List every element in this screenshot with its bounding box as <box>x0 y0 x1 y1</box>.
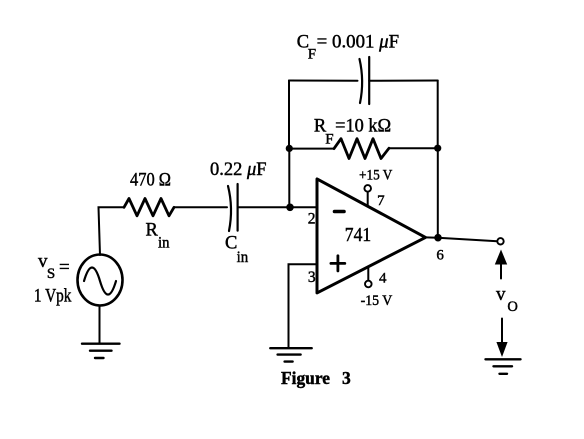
wire Cin to inverting input node <box>238 206 317 208</box>
feedback left vertical wire <box>288 81 290 149</box>
resistor Rin <box>124 199 174 216</box>
svg-text:3: 3 <box>342 368 351 388</box>
label vS = <box>38 251 70 282</box>
ground at output <box>486 359 521 374</box>
svg-text:F: F <box>308 46 316 62</box>
svg-text:2: 2 <box>308 210 316 227</box>
node at output <box>434 234 442 242</box>
svg-text:=: = <box>59 257 70 278</box>
wire node up to feedback <box>288 148 290 207</box>
sine wave inside source <box>84 268 116 295</box>
wire source bottom to ground <box>99 306 101 344</box>
svg-text:= 0.001 μF: = 0.001 μF <box>317 32 399 52</box>
plus symbol <box>331 256 345 271</box>
op-amp U1 741 triangle <box>317 179 426 293</box>
svg-text:=10 kΩ: =10 kΩ <box>335 117 391 137</box>
pin 7 wire <box>367 192 369 207</box>
feedback right vertical wire upper <box>437 81 439 149</box>
voltage source VS <box>78 255 123 306</box>
node RF left <box>286 145 293 152</box>
node at inverting input <box>286 204 294 212</box>
svg-text:+15 V: +15 V <box>359 167 392 183</box>
wire source top to input line <box>99 207 125 255</box>
caption Figure 3 <box>281 368 351 388</box>
node RF right <box>434 145 441 152</box>
svg-text:741: 741 <box>345 224 371 246</box>
svg-text:1 Vpk: 1 Vpk <box>34 286 72 307</box>
svg-text:Figure: Figure <box>281 368 330 388</box>
vO up arrow <box>495 250 507 265</box>
pin 7 terminal <box>364 185 371 192</box>
capacitor Cin <box>228 184 238 231</box>
svg-text:6: 6 <box>436 247 444 263</box>
feedback right vertical wire lower <box>437 148 439 238</box>
resistor RF <box>334 139 389 159</box>
svg-text:-15 V: -15 V <box>361 293 393 309</box>
svg-text:470 Ω: 470 Ω <box>130 171 171 191</box>
svg-text:4: 4 <box>379 271 387 287</box>
label Rin <box>146 220 170 251</box>
svg-text:O: O <box>507 299 517 315</box>
label CF = 0.001 uF <box>297 32 399 62</box>
svg-text:R: R <box>146 220 159 240</box>
svg-text:3: 3 <box>308 269 316 286</box>
label vO <box>496 284 518 315</box>
output wire pin 6 <box>426 237 498 241</box>
ground below pin 3 <box>270 348 311 361</box>
vO down arrow <box>501 319 503 344</box>
svg-text:7: 7 <box>377 193 385 209</box>
wire RF left <box>289 148 334 150</box>
capacitor CF <box>360 57 370 104</box>
minus symbol <box>335 210 345 214</box>
output terminal <box>497 238 503 244</box>
wire RF right <box>389 147 438 149</box>
pin 4 wire <box>367 267 369 281</box>
feedback top wire right segment <box>369 80 438 82</box>
label Cin <box>225 234 248 266</box>
pin 4 terminal <box>365 281 372 288</box>
svg-text:in: in <box>158 235 170 252</box>
svg-text:S: S <box>47 266 55 282</box>
pin 3 wire <box>289 264 318 347</box>
svg-text:C: C <box>225 234 237 254</box>
svg-text:v: v <box>496 284 506 305</box>
ground below source <box>82 344 120 358</box>
label RF = 10 kohm <box>314 117 391 148</box>
svg-text:in: in <box>237 249 249 266</box>
feedback top wire left segment <box>289 80 358 82</box>
svg-text:F: F <box>325 132 333 148</box>
wire resistor to Cin <box>174 206 227 208</box>
svg-text:0.22 μF: 0.22 μF <box>210 160 267 180</box>
